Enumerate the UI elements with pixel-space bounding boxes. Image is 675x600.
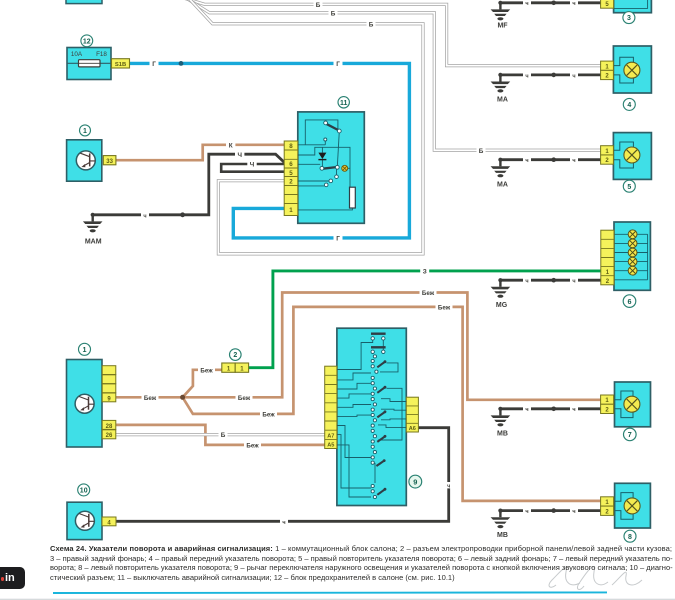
ground MA lower bbox=[491, 158, 511, 189]
wire white B to repeater 5 (net B2) bbox=[186, 0, 601, 150]
svg-text:1: 1 bbox=[83, 128, 87, 135]
junction dot on cyan wire bbox=[179, 61, 184, 66]
svg-text:К: К bbox=[229, 142, 233, 149]
wire black MA to repeater 5 pin 2 bbox=[500, 158, 600, 161]
COMPONENTS-LAYER bbox=[66, 0, 651, 542]
ground MG bbox=[491, 278, 511, 309]
block 1 pins (3 blank + 9) bbox=[102, 366, 116, 403]
hazard switch 11 diode bbox=[318, 153, 326, 160]
ч ticks on ground wire MF bbox=[523, 0, 578, 7]
column switch 9 contact chain bbox=[371, 355, 378, 499]
wire label Г (bottom) bbox=[334, 234, 343, 242]
lamp 4 pins 1,2 bbox=[601, 61, 614, 80]
hazard switch 11 resistor bbox=[350, 187, 356, 208]
circled 8 bbox=[624, 530, 636, 542]
caption line 1 bbox=[50, 544, 672, 553]
bottom hairline bbox=[0, 598, 675, 600]
svg-text:ч: ч bbox=[572, 407, 575, 413]
circled 12 bbox=[81, 35, 93, 47]
lamp 5 bulb bbox=[624, 147, 640, 163]
lamp 7 bulb bbox=[624, 396, 640, 412]
wire label ч on lamp10 wire bbox=[280, 518, 288, 526]
svg-text:5: 5 bbox=[289, 170, 293, 177]
svg-text:5: 5 bbox=[627, 184, 631, 191]
wire label Г (top) bbox=[334, 60, 343, 68]
svg-text:A5: A5 bbox=[327, 443, 334, 449]
svg-text:MA: MA bbox=[497, 181, 508, 188]
circled 1 lower bbox=[79, 343, 91, 355]
ч ticks on ground wire MG bbox=[523, 277, 578, 285]
svg-text:MF: MF bbox=[497, 23, 508, 30]
caption line 3 bbox=[50, 563, 672, 572]
hazard switch 11 body bbox=[298, 112, 365, 223]
junction dots on ground wires bbox=[551, 1, 556, 513]
svg-text:Беж: Беж bbox=[144, 395, 157, 402]
svg-text:33: 33 bbox=[106, 159, 113, 165]
wire label Беж at pin 9 bbox=[142, 394, 159, 402]
block 1 lower transistor symbol bbox=[75, 394, 94, 413]
right rear lamp 3 (cut off) body bbox=[614, 0, 652, 13]
block 1 pin 33 bbox=[103, 156, 116, 165]
front turn lamp 7 body bbox=[615, 382, 651, 427]
svg-text:ч: ч bbox=[525, 73, 528, 79]
hazard switch 11 contacts middle bbox=[320, 165, 339, 186]
column switch lever 9 body bbox=[337, 328, 406, 505]
turn repeater 5 body bbox=[613, 133, 651, 180]
front turn lamp 4 body bbox=[613, 46, 651, 93]
svg-text:3: 3 bbox=[627, 15, 631, 22]
wire label Беж to connector 2 bbox=[198, 366, 215, 374]
wire black diag connector 10 pin 4 to column switch A6 bbox=[116, 428, 449, 522]
ч ticks on ground wire MB upper bbox=[523, 406, 578, 414]
svg-text:2: 2 bbox=[289, 179, 293, 186]
svg-text:ч: ч bbox=[143, 213, 146, 219]
ground MB upper bbox=[491, 407, 511, 438]
svg-text:1: 1 bbox=[83, 345, 87, 354]
svg-text:Г: Г bbox=[336, 61, 340, 68]
circled 5 bbox=[623, 180, 635, 192]
wire white B top-right to lamp 4 (net B1) bbox=[184, 0, 601, 66]
ч ticks on ground wire MA lower bbox=[523, 156, 578, 164]
svg-text:ч: ч bbox=[525, 158, 528, 164]
interior switching block 1 (lower section) bbox=[67, 360, 103, 448]
connector S1B bbox=[112, 59, 130, 68]
svg-text:7: 7 bbox=[628, 430, 632, 439]
column switch 9 internal circuit bbox=[337, 340, 406, 497]
svg-text:Б: Б bbox=[316, 2, 321, 9]
column switch 9 hazard pushbutton contacts bbox=[371, 333, 386, 354]
wire label Б net B1 bbox=[314, 1, 323, 9]
svg-text:8: 8 bbox=[628, 534, 632, 541]
block 1 transistor symbol bbox=[76, 151, 95, 170]
circled 3 bbox=[623, 12, 635, 24]
svg-text:1: 1 bbox=[289, 207, 293, 214]
svg-text:Беж: Беж bbox=[246, 443, 259, 450]
wire label ч on A6 riser bbox=[445, 482, 453, 490]
svg-text:ч: ч bbox=[572, 158, 575, 164]
diagnostic connector 10 body bbox=[67, 502, 102, 539]
connector 2 bbox=[222, 363, 249, 372]
svg-text:MA: MA bbox=[497, 97, 508, 104]
ground MB lower bbox=[491, 509, 511, 540]
svg-text:ч: ч bbox=[525, 509, 528, 515]
circled 9 bbox=[409, 475, 422, 488]
svg-text:10A: 10A bbox=[71, 51, 83, 58]
wire label Б at repeater 5 bbox=[477, 147, 486, 155]
svg-text:A6: A6 bbox=[409, 426, 416, 432]
svg-text:Б: Б bbox=[369, 21, 374, 28]
svg-text:Б: Б bbox=[221, 432, 226, 439]
circled 1 upper bbox=[80, 125, 91, 136]
wire beige splice to front turn lamp 7 pin 1 bbox=[183, 293, 601, 400]
hazard switch 11 indicator ball bbox=[342, 165, 348, 171]
wire white B loop into hazard switch pin 2 (net B3) bbox=[189, 0, 424, 254]
svg-text:МВ: МВ bbox=[497, 430, 508, 437]
interior switching block 1 (upper section) bbox=[67, 140, 102, 181]
watermark signature bbox=[549, 567, 642, 590]
svg-text:ч: ч bbox=[525, 407, 528, 413]
wire label Беж on repeater8 branch bbox=[436, 303, 453, 311]
left rear lamp 6 body bbox=[614, 222, 650, 290]
circled 10 bbox=[78, 484, 90, 496]
hazard switch 11 relay contacts top bbox=[324, 121, 341, 141]
circled 2 bbox=[230, 349, 242, 361]
circled 6 bbox=[623, 295, 636, 308]
wire black MB to repeater 8 pin 2 bbox=[500, 509, 600, 512]
svg-text:Беж: Беж bbox=[262, 412, 275, 419]
lamp 6 pin strip bbox=[601, 230, 614, 285]
wire black MAM ground to hazard switch pin 6 bbox=[93, 154, 285, 215]
wire white B block 1 pin 26 to column switch A7 bbox=[116, 433, 325, 436]
svg-text:Г: Г bbox=[336, 236, 340, 243]
svg-text:Ч: Ч bbox=[250, 162, 255, 169]
svg-text:6: 6 bbox=[628, 297, 632, 306]
block 1 pin 28 bbox=[102, 420, 116, 429]
wire label З bbox=[420, 267, 429, 275]
svg-text:4: 4 bbox=[627, 102, 631, 109]
svg-text:Беж: Беж bbox=[238, 395, 251, 402]
svg-text:Беж: Беж bbox=[422, 290, 435, 297]
ground MF bbox=[491, 1, 511, 30]
lamp 6 bulbs bbox=[628, 230, 637, 275]
svg-text:2: 2 bbox=[233, 352, 237, 359]
circled 7 bbox=[624, 428, 637, 441]
caption line 2 bbox=[50, 554, 672, 563]
fuse box 12 bbox=[67, 48, 111, 80]
svg-text:ч: ч bbox=[572, 509, 575, 515]
connector 10 transistor symbol bbox=[75, 511, 94, 530]
wire tan K block 1 pin 33 to hazard switch pin 8 bbox=[116, 145, 285, 160]
linkedin share badge bbox=[0, 567, 25, 589]
block 1 pin 26 bbox=[102, 430, 116, 439]
circled 4 bbox=[623, 98, 635, 110]
svg-text:Г: Г bbox=[152, 61, 156, 68]
wire label Б net B2 bbox=[329, 9, 338, 17]
lamp 7 pins 1,2 bbox=[601, 395, 614, 414]
wire beige splice to connector 2 bbox=[183, 370, 222, 398]
svg-text:ч: ч bbox=[282, 520, 285, 526]
svg-text:З: З bbox=[423, 269, 427, 276]
column switch 9 right pin strip bbox=[406, 397, 418, 432]
column switch 9 left pin strip bbox=[325, 366, 337, 448]
svg-text:Беж: Беж bbox=[200, 367, 213, 374]
svg-text:ч: ч bbox=[447, 484, 450, 490]
svg-text:6: 6 bbox=[289, 161, 293, 168]
fuse F18 symbol bbox=[79, 60, 101, 67]
svg-text:ч: ч bbox=[525, 1, 528, 7]
svg-text:12: 12 bbox=[83, 38, 91, 45]
wire label Г (left) bbox=[150, 60, 159, 68]
svg-text:ч: ч bbox=[572, 73, 575, 79]
ч ticks on ground wire MB lower bbox=[523, 507, 578, 515]
wire label Ч jumper bbox=[247, 161, 256, 169]
svg-text:A7: A7 bbox=[327, 434, 334, 440]
hazard switch 11 internal circuit bbox=[298, 120, 353, 210]
cyan caption underline bbox=[53, 591, 607, 594]
svg-text:Беж: Беж bbox=[438, 305, 451, 312]
lamp 3 pin 5 bbox=[601, 0, 614, 8]
lamp 5 pins 1,2 bbox=[601, 146, 614, 165]
svg-text:Б: Б bbox=[331, 10, 336, 17]
wire beige block 1 pin 9 to splice bbox=[116, 396, 183, 399]
wire green З connector 2 to rear lamp 6 pin 1 bbox=[249, 271, 601, 368]
beige splice dot bbox=[180, 395, 185, 400]
svg-text:ч: ч bbox=[525, 279, 528, 285]
svg-text:MG: MG bbox=[496, 302, 508, 309]
wire label К bbox=[226, 141, 235, 149]
ground MAM bbox=[83, 213, 103, 246]
wire beige splice to repeater 8 pin 1 bbox=[183, 307, 601, 501]
wire label ч on MAM wire bbox=[141, 211, 149, 219]
cut-off box at top left bbox=[66, 0, 102, 4]
svg-text:S1B: S1B bbox=[115, 62, 126, 68]
svg-text:10: 10 bbox=[80, 488, 88, 495]
caption line 4 bbox=[50, 573, 672, 582]
wire label Беж splice right bbox=[236, 394, 253, 402]
svg-text:МАМ: МАМ bbox=[85, 238, 102, 245]
wire label Беж on lamp7 branch bbox=[420, 289, 437, 297]
wire black MA to lamp 4 pin 2 bbox=[500, 74, 600, 77]
wire label Ч upper bbox=[235, 151, 244, 159]
svg-text:26: 26 bbox=[106, 433, 113, 439]
wire label Беж on A5 wire bbox=[244, 441, 261, 449]
wire black MF to lamp 3 pin 5 bbox=[500, 1, 600, 4]
hazard switch 11 pin strip bbox=[284, 141, 298, 216]
wire label Б net B3 bbox=[367, 20, 376, 28]
wire label Беж on lower splice branch bbox=[260, 410, 277, 418]
wire black jumper hazard pins 6-5 bbox=[221, 164, 285, 172]
svg-text:Б: Б bbox=[479, 148, 484, 155]
column switch 9 levers bbox=[376, 362, 384, 495]
svg-text:Ч: Ч bbox=[237, 152, 242, 159]
wire beige block 1 pin 28 to column switch A5 bbox=[116, 425, 325, 445]
wire black MG to lamp 6 pin 2 bbox=[500, 279, 600, 282]
svg-text:9: 9 bbox=[413, 477, 417, 486]
lamp 8 bulb bbox=[624, 498, 640, 514]
wire black MB to lamp 7 pin 2 bbox=[500, 407, 600, 410]
svg-text:F18: F18 bbox=[96, 51, 107, 58]
column switch 9 lever pivots bbox=[383, 360, 387, 490]
svg-text:ч: ч bbox=[572, 1, 575, 7]
circled 11 bbox=[338, 97, 349, 108]
wire label Б on A7 wire bbox=[219, 431, 228, 439]
svg-text:ч: ч bbox=[572, 279, 575, 285]
lamp 4 bulb bbox=[624, 62, 640, 78]
svg-text:8: 8 bbox=[289, 143, 293, 150]
ч ticks on ground wire MA upper bbox=[523, 72, 578, 80]
svg-text:11: 11 bbox=[340, 100, 348, 107]
WIRES-LAYER bbox=[93, 0, 601, 521]
connector 10 pin 4 bbox=[102, 517, 116, 526]
ground MA upper bbox=[491, 73, 511, 104]
turn repeater 8 body bbox=[615, 483, 651, 528]
lamp 8 pins 1,2 bbox=[601, 497, 614, 516]
wire cyan Г fuse F18 to hazard switch pin 1 bbox=[129, 63, 409, 238]
svg-text:МВ: МВ bbox=[497, 532, 508, 539]
svg-text:28: 28 bbox=[106, 424, 113, 430]
junction dot on MAM wire bbox=[180, 212, 185, 217]
